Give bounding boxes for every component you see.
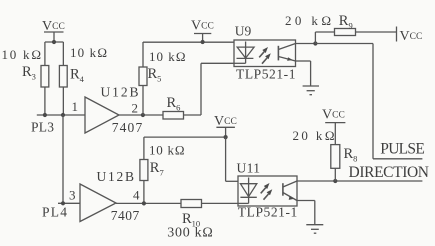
junction dot R4-node1 bbox=[61, 113, 65, 117]
svg-text:10 kΩ: 10 kΩ bbox=[149, 49, 186, 64]
power Vcc right bbox=[396, 27, 398, 42]
svg-text:PL3: PL3 bbox=[31, 120, 54, 135]
wire Vcc1 branch bbox=[45, 41, 63, 43]
svg-text:DIRECTION: DIRECTION bbox=[349, 164, 430, 181]
svg-text:U12B: U12B bbox=[97, 169, 135, 184]
resistor R5 bbox=[139, 67, 147, 115]
wire node 1 bbox=[37, 114, 85, 116]
svg-text:20 kΩ: 20 kΩ bbox=[285, 13, 331, 28]
svg-text:300 kΩ: 300 kΩ bbox=[167, 226, 213, 241]
net label PL4 bbox=[42, 205, 67, 220]
label TLP521-1 U9 bbox=[236, 67, 296, 82]
buffer U12B bottom 7407 bbox=[80, 184, 116, 222]
junction dot node2 bbox=[141, 113, 145, 117]
pin 3 bbox=[69, 188, 76, 203]
svg-text:10 kΩ: 10 kΩ bbox=[70, 45, 107, 60]
ground U9 bbox=[303, 86, 319, 95]
label Vcc right bbox=[400, 29, 423, 44]
label R10 bbox=[182, 211, 200, 229]
LED inside U11 bbox=[238, 178, 257, 204]
label Vcc above R8 bbox=[322, 108, 345, 123]
label TLP521-1 U11 bbox=[238, 205, 297, 220]
resistor R7 bbox=[140, 160, 148, 204]
junction dot Vcc rail bbox=[201, 40, 205, 44]
label R8 bbox=[344, 146, 358, 164]
junction dot Vcc1 bbox=[52, 40, 56, 44]
svg-text:10 kΩ: 10 kΩ bbox=[2, 47, 42, 62]
svg-text:1: 1 bbox=[72, 99, 79, 114]
label 7407 bottom bbox=[111, 208, 140, 223]
ground U11 bbox=[306, 225, 323, 234]
wire U9 collector bbox=[296, 43, 316, 45]
svg-text:20 kΩ: 20 kΩ bbox=[293, 128, 335, 143]
svg-text:TLP521-1: TLP521-1 bbox=[236, 67, 296, 82]
svg-text:7407: 7407 bbox=[112, 120, 143, 135]
wire U11 emitter bbox=[297, 201, 315, 225]
label Vcc top-middle bbox=[191, 19, 214, 34]
svg-text:3: 3 bbox=[69, 188, 76, 203]
label 7407 top bbox=[112, 120, 143, 135]
svg-text:VCC: VCC bbox=[400, 29, 423, 44]
svg-text:U11: U11 bbox=[237, 161, 261, 176]
label R7 bbox=[150, 160, 164, 178]
svg-text:VCC: VCC bbox=[214, 114, 237, 129]
wire U11 collector direction bbox=[297, 180, 422, 182]
svg-text:VCC: VCC bbox=[42, 19, 65, 34]
wire R6 to U9 pin2 bbox=[201, 63, 234, 115]
buffer U12B top 7407 bbox=[85, 97, 119, 133]
label R3 bbox=[22, 64, 36, 82]
net label DIRECTION bbox=[349, 164, 430, 181]
power Vcc middle bbox=[216, 127, 235, 137]
svg-text:R9: R9 bbox=[339, 13, 353, 31]
label R9 bbox=[339, 13, 353, 31]
svg-text:VCC: VCC bbox=[191, 19, 214, 34]
wire PL3 to PL4 bbox=[62, 115, 64, 203]
svg-text:4: 4 bbox=[133, 188, 140, 203]
wire pulse bbox=[315, 44, 422, 159]
resistor R4 bbox=[59, 42, 67, 115]
value 10 kOhm R7 bbox=[149, 143, 185, 158]
resistor R8 bbox=[331, 123, 340, 181]
svg-text:PULSE: PULSE bbox=[380, 140, 425, 157]
svg-text:R3: R3 bbox=[22, 64, 36, 82]
junction dot Vcc rail bottom bbox=[224, 135, 228, 139]
junction dot R3-node1 bbox=[43, 113, 47, 117]
value 20 kOhm R9 bbox=[285, 13, 331, 28]
svg-text:10 kΩ: 10 kΩ bbox=[149, 143, 185, 158]
wire node 2 bbox=[119, 114, 163, 116]
junction dot pulse node bbox=[313, 41, 317, 45]
label R4 bbox=[70, 67, 85, 85]
pin 4 bbox=[133, 188, 140, 203]
value 20 kOhm R8 bbox=[293, 128, 335, 143]
label U12B bottom bbox=[97, 169, 135, 184]
svg-text:R7: R7 bbox=[150, 160, 164, 178]
svg-text:R4: R4 bbox=[70, 67, 85, 85]
svg-text:PL4: PL4 bbox=[42, 205, 67, 220]
value 10 kOhm R4 bbox=[70, 45, 107, 60]
value 10 kOhm R5 bbox=[149, 49, 186, 64]
svg-text:7407: 7407 bbox=[111, 208, 140, 223]
svg-text:2: 2 bbox=[132, 101, 139, 116]
power Vcc top-left bbox=[44, 32, 64, 42]
wire Vcc to U11 pin1 bbox=[226, 137, 238, 181]
label R5 bbox=[148, 66, 162, 84]
wire Vcc rail bottom bbox=[144, 137, 226, 159]
label R6 bbox=[167, 95, 181, 113]
svg-text:VCC: VCC bbox=[322, 108, 345, 123]
label Vcc top-left bbox=[42, 19, 65, 34]
svg-text:R8: R8 bbox=[344, 146, 358, 164]
net label PULSE bbox=[380, 140, 425, 157]
photon arrows U9 bbox=[259, 47, 271, 64]
wire U9 emitter bbox=[296, 61, 311, 86]
junction dot node3 bbox=[61, 201, 65, 205]
svg-text:TLP521-1: TLP521-1 bbox=[238, 205, 297, 220]
pin 2 bbox=[132, 101, 139, 116]
wire Vcc rail top bbox=[143, 42, 234, 67]
value 10 kOhm R3 bbox=[2, 47, 42, 62]
svg-text:U12B: U12B bbox=[101, 85, 139, 100]
optocoupler U9 TLP521-1 bbox=[234, 40, 296, 67]
power Vcc top-middle bbox=[194, 34, 211, 43]
wire pullup branch bbox=[315, 32, 334, 44]
power Vcc above R8 bbox=[325, 122, 345, 124]
value 300 kOhm R10 bbox=[167, 226, 213, 241]
label U9 bbox=[235, 24, 252, 39]
wire node 4 bbox=[116, 202, 181, 204]
label U11 bbox=[237, 161, 261, 176]
resistor R3 bbox=[41, 42, 49, 115]
label U12B top bbox=[101, 85, 139, 100]
optocoupler U11 TLP521-1 bbox=[238, 176, 297, 206]
net label PL3 bbox=[31, 120, 54, 135]
wire node 3 bbox=[58, 202, 80, 204]
pin 1 bbox=[72, 99, 79, 114]
svg-text:R6: R6 bbox=[167, 95, 181, 113]
LED inside U9 bbox=[234, 42, 254, 64]
junction dot direction node bbox=[333, 179, 337, 183]
phototransistor U9 bbox=[278, 44, 295, 62]
phototransistor U11 bbox=[283, 181, 297, 201]
label Vcc middle bbox=[214, 114, 237, 129]
resistor R10 bbox=[181, 200, 238, 208]
svg-text:U9: U9 bbox=[235, 24, 252, 39]
resistor R9 bbox=[335, 29, 397, 36]
photon arrows U11 bbox=[261, 183, 273, 200]
junction dot node4 bbox=[142, 201, 146, 205]
resistor R6 bbox=[163, 112, 201, 120]
svg-text:R5: R5 bbox=[148, 66, 162, 84]
